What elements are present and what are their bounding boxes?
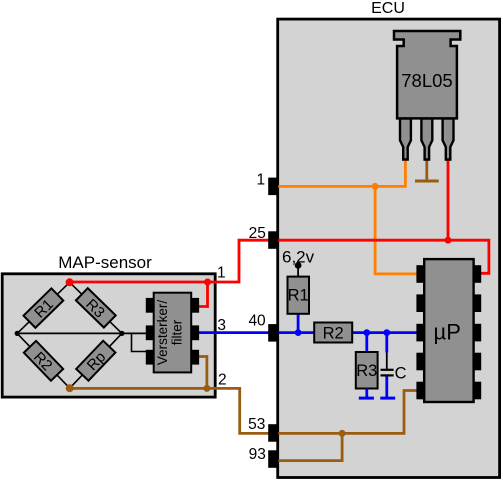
wire orange branch to uP pin 1 <box>375 186 418 274</box>
ECU pin 53 <box>268 424 278 442</box>
label uP <box>434 320 461 345</box>
wire red pin25 rail to uP right pin 1 <box>273 240 489 273</box>
wire blue amplifier mid-right pin to ECU pin 40 and uP pin 3 <box>197 331 418 334</box>
node bridge right <box>119 331 124 336</box>
svg-text:R2: R2 <box>323 325 344 343</box>
junction blue R3 <box>363 329 370 336</box>
svg-text:25: 25 <box>249 225 266 242</box>
amplifier pins left <box>146 298 154 365</box>
svg-text:Versterker/: Versterker/ <box>155 300 170 366</box>
wire black 6,2v node to R1 <box>297 265 299 277</box>
wire brown amplifier bottom pin branch <box>197 357 207 389</box>
label ECU pin 1 <box>256 171 265 188</box>
wire brown pin53 to uP pin 5 <box>273 391 418 434</box>
ground bar regulator <box>415 180 439 183</box>
node bridge bottom (brown dot) <box>66 384 74 392</box>
junction brown pin53 <box>339 430 346 437</box>
svg-text:MAP-sensor: MAP-sensor <box>58 253 152 272</box>
wire red top node to MAP pin 1 and ECU pin 25 <box>70 240 273 282</box>
svg-text:40: 40 <box>248 313 266 330</box>
wire brown to pin 93 <box>273 433 342 460</box>
microprocessor body uP <box>424 259 473 402</box>
junction blue R1 <box>295 329 302 336</box>
label MAP pin 2 <box>218 371 227 388</box>
microprocessor pins left <box>416 265 424 399</box>
junction red near MAP pin 1 <box>204 279 211 286</box>
voltage regulator 78L05 body <box>394 31 460 118</box>
label ECU pin 25 <box>249 225 266 242</box>
amplifier body U1 <box>154 293 192 373</box>
label ECU pin 53 <box>248 416 265 433</box>
junction blue C <box>383 329 390 336</box>
svg-text:filter: filter <box>170 319 185 345</box>
label MAP-sensor <box>58 253 152 272</box>
MAP-sensor enclosure <box>2 274 215 397</box>
resistor R1 (bridge) <box>24 288 64 328</box>
resistor R3 (bridge) <box>75 288 116 328</box>
label ECU <box>371 0 405 17</box>
wire bridge middle to amplifier mid pin <box>17 332 147 334</box>
svg-text:3: 3 <box>217 317 226 334</box>
node bridge left <box>15 331 20 336</box>
wire orange ECU pin1 to regulator left leg <box>273 158 405 186</box>
wire bridge bottom-right edge <box>70 333 122 388</box>
resistor Rp (bridge) <box>76 341 116 382</box>
wire blue R3 to ground <box>365 389 368 399</box>
svg-text:2: 2 <box>218 371 227 388</box>
junction red regulator <box>445 237 452 244</box>
label ECU pin 93 <box>249 446 266 463</box>
node bridge top (red dot) <box>66 278 74 286</box>
wire blue capacitor branch <box>385 333 388 353</box>
label MAP pin 1 <box>217 264 226 281</box>
label C <box>395 364 407 382</box>
label Versterker/filter <box>155 300 185 366</box>
label 6,2v <box>282 248 315 267</box>
svg-text:1: 1 <box>256 171 265 188</box>
svg-text:ECU: ECU <box>371 0 405 17</box>
resistor R1 (ECU) <box>288 277 310 314</box>
svg-text:µP: µP <box>434 320 461 345</box>
ECU pin 93 <box>268 450 278 468</box>
svg-text:93: 93 <box>249 446 266 463</box>
capacitor C lead top (black) <box>386 353 388 369</box>
amplifier pins right <box>191 298 199 365</box>
wire red regulator right leg to pin25 rail <box>447 158 450 240</box>
label ECU pin 40 <box>248 313 266 330</box>
svg-text:53: 53 <box>248 416 265 433</box>
wire brown regulator mid leg to ground <box>425 158 428 181</box>
wire blue R3 branch <box>365 333 368 353</box>
voltage regulator 78L05 legs <box>400 118 454 159</box>
wire brown bottom node to ECU pin 53 <box>70 388 273 433</box>
wire bridge bottom-left edge <box>17 333 69 388</box>
wire bridge right node to amplifier lower pin <box>132 333 148 351</box>
svg-text:C: C <box>395 364 407 382</box>
svg-text:1: 1 <box>217 264 226 281</box>
resistor R2 (bridge) <box>23 341 63 382</box>
ECU pin 25 <box>268 231 278 249</box>
ground bar R3 <box>359 397 374 400</box>
capacitor C plates <box>381 370 394 376</box>
label 78L05 <box>401 70 452 91</box>
label MAP pin 3 <box>217 317 226 334</box>
wire bridge top-right edge <box>70 282 122 333</box>
resistor R3 (ECU) <box>356 352 378 389</box>
junction orange <box>372 183 379 190</box>
wire bridge top-left edge <box>17 282 69 333</box>
node 6,2v (black dot) <box>295 262 302 269</box>
svg-text:R3: R3 <box>356 362 377 380</box>
svg-text:78L05: 78L05 <box>401 70 452 91</box>
wire blue capacitor to ground <box>385 376 388 398</box>
ECU pin 1 <box>268 178 278 196</box>
junction brown near MAP pin 2 <box>203 385 210 392</box>
microprocessor pins right <box>474 265 482 399</box>
svg-text:R1: R1 <box>288 287 309 305</box>
ECU enclosure <box>278 19 500 477</box>
ground bar C <box>380 397 395 400</box>
wire blue R1 to rail <box>297 313 300 333</box>
ECU pin 40 <box>268 324 278 342</box>
resistor R2 (ECU) <box>314 323 352 343</box>
wire red branch to amplifier top pin <box>197 282 208 307</box>
